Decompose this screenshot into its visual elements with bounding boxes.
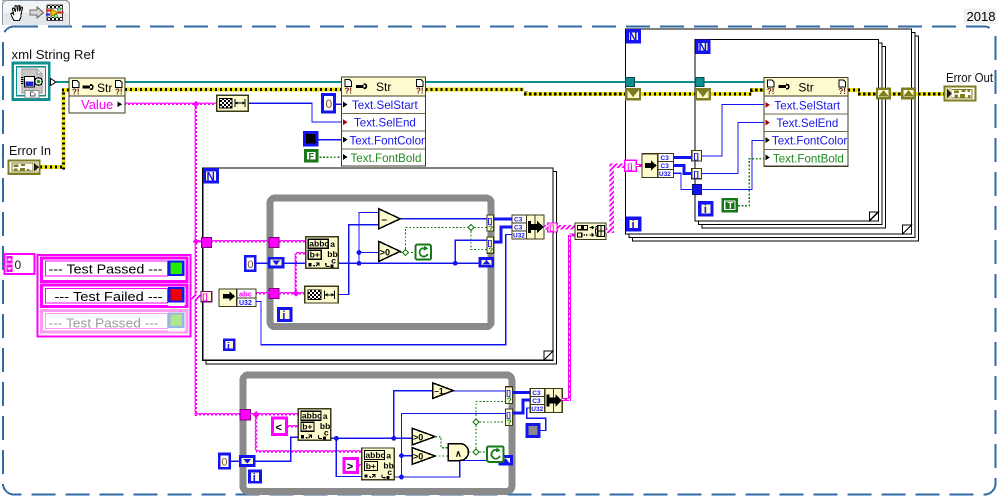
svg-text:Error In: Error In (9, 144, 51, 158)
constant 0 (SelStart) (323, 95, 342, 113)
N label (right inner loop) (697, 41, 709, 54)
i terminal (while loop middle) (278, 309, 291, 323)
wire: cluster to unbundle (dashed) (203, 295, 219, 298)
svg-text:--- Test Passed ---: --- Test Passed --- (49, 262, 163, 276)
greater than zero node 1 (bottom) (412, 428, 435, 445)
svg-text:[]: [] (627, 162, 632, 171)
wire: string down to bottom loop entry (196, 412, 241, 417)
shift register down (bottom loop) (240, 457, 254, 466)
wire: unbundle U32 long route to bundle U32 (256, 235, 512, 345)
svg-text:--- Test Passed ---: --- Test Passed --- (49, 316, 159, 330)
N label (middle loop) (205, 170, 218, 184)
svg-text:Text.FontBold: Text.FontBold (773, 152, 844, 165)
tunnel: error shift in (outer loop) (626, 89, 640, 99)
svg-text:Text.FontBold: Text.FontBold (351, 152, 422, 165)
property node U3: Str with 4 properties (764, 77, 848, 166)
svg-text:0: 0 (326, 97, 333, 111)
tunnel: teal reference on outer loop (626, 78, 635, 87)
svg-text:C3: C3 (661, 155, 670, 162)
svg-text:0: 0 (15, 258, 22, 272)
shift register up (bottom loop) (500, 457, 512, 465)
wire: string branch up to b+ input (294, 254, 299, 294)
VI film icon (46, 5, 64, 22)
wire: unbundle abc string out to junction and string length (256, 291, 306, 296)
svg-text:i: i (227, 340, 230, 352)
wire: teal through loops (redraw over frames) (625, 81, 764, 83)
shift register up (middle while loop) (480, 258, 493, 266)
match pattern node (middle loop) (306, 237, 339, 269)
svg-text:abbc: abbc (309, 239, 329, 249)
tunnel: error shift in (inner loop) (696, 89, 710, 99)
junction: string at (196,241.5) (193, 238, 200, 245)
2018 version label (964, 9, 997, 25)
wire: middle tunnel cluster to build array (557, 225, 575, 230)
junction: string at (296,293.5) (293, 290, 300, 297)
svg-text:>0: >0 (413, 452, 423, 462)
svg-text:C3: C3 (661, 163, 670, 170)
wires: tunnels to property node 3 (702, 105, 764, 157)
AND gate (448, 444, 468, 461)
svg-text:?: ? (507, 418, 512, 427)
tunnel: array in 2 (inner loop) (692, 168, 702, 178)
junction: boolean diamonds (bottom) (473, 449, 479, 455)
svg-text:?!: ?! (838, 87, 846, 96)
tunnel: array auto-index on for loop left edge (201, 291, 212, 301)
conditional tunnel 2 (bottom) (505, 409, 512, 428)
svg-text:[]: [] (694, 170, 700, 179)
string length node (top) (217, 95, 249, 111)
wire: string wire from Value output (125, 102, 216, 107)
conditional tunnel 1 (bottom) (505, 387, 512, 406)
build array node (575, 223, 606, 240)
wire: error wire node2 to right loops (426, 90, 627, 95)
svg-text:?!: ?! (767, 87, 775, 96)
constant 0 (middle loop shift init) (245, 256, 268, 271)
svg-text:i: i (282, 310, 285, 322)
F boolean constant (FontBold) (306, 151, 342, 162)
wire: bundle out to tunnel (544, 225, 548, 230)
svg-text:U32: U32 (513, 233, 525, 240)
svg-text:?!: ?! (345, 87, 353, 96)
svg-text:F: F (309, 152, 315, 162)
N label (right outer loop) (627, 31, 639, 44)
svg-text:>: > (347, 461, 353, 473)
svg-text:?: ? (507, 396, 512, 405)
wire: error in to property node Str1 (40, 90, 69, 170)
svg-text:Text.SelStart: Text.SelStart (774, 99, 841, 112)
match pattern node 1 (bottom loop) (298, 409, 331, 441)
svg-text:Text.FontColor: Text.FontColor (772, 135, 848, 148)
wire: array of clusters out to for-loop tunnel (191, 295, 203, 300)
loop condition terminal (middle) (416, 245, 432, 260)
tunnel: string into bottom loop (240, 410, 250, 420)
svg-text:∧: ∧ (455, 449, 462, 459)
svg-text:T: T (728, 201, 734, 211)
control terminal: xml String Ref (13, 63, 56, 100)
svg-text:2018: 2018 (967, 9, 996, 24)
svg-text:i: i (253, 472, 256, 484)
svg-text:?!: ?! (72, 88, 80, 97)
wire: thick array wires tunnels to bundle (494, 218, 512, 221)
svg-text:N: N (699, 42, 707, 54)
svg-text:>0: >0 (380, 248, 390, 258)
svg-text:U32: U32 (239, 300, 252, 307)
tunnel: array in 1 (inner loop) (692, 151, 702, 161)
tunnel: cluster array auto-index (outer loop left) (625, 160, 636, 171)
svg-text:i: i (704, 204, 707, 216)
greater than zero node (379, 241, 400, 261)
wire: built array up into right outer loop (606, 229, 614, 233)
svg-text:i: i (632, 220, 635, 232)
wire: string length 2 out up to subtract (338, 225, 379, 295)
property node U2: Str with 4 properties (342, 77, 426, 166)
svg-text:Text.SelStart: Text.SelStart (352, 99, 419, 112)
svg-text:--- Test Failed ---: --- Test Failed --- (55, 290, 163, 304)
while loop frame (middle, gray) (270, 198, 491, 327)
svg-text:0: 0 (221, 457, 227, 469)
i terminal (inner loop) (700, 203, 712, 217)
wire: string from trunk into middle for loop (196, 239, 306, 244)
while loop frame (bottom, gray) (243, 375, 512, 491)
cluster element 1: Test Passed (42, 258, 188, 282)
i terminal (bottom loop) (249, 471, 260, 484)
wire: subtract out to conditional tunnel 1 (400, 218, 487, 220)
wire: match node offset-out to shift register with branches (338, 262, 478, 264)
svg-text:U32: U32 (659, 171, 671, 178)
svg-text:[]: [] (694, 152, 700, 161)
indicator terminal: Error Out (945, 87, 976, 101)
svg-text:b+: b+ (310, 250, 320, 260)
subtract node (379, 209, 400, 229)
junction: boolean diamonds (402, 249, 408, 255)
wire: cluster to right unbundle (636, 164, 642, 167)
tunnel: string in (lower) on while loop (269, 288, 279, 298)
wire: booleans into AND (435, 402, 505, 457)
string length node (middle loop) (305, 286, 338, 303)
svg-text:c: c (331, 256, 336, 266)
unbundle node (cluster to abc/U32) (219, 289, 256, 307)
greater than zero node 2 (bottom) (412, 448, 435, 465)
junction: string at (256.3,414.5) (253, 411, 260, 418)
junction: string at (196,104) (193, 101, 200, 108)
minus one node (433, 383, 454, 399)
svg-text:Text.FontColor: Text.FontColor (350, 134, 426, 147)
array of clusters constant frame (38, 255, 191, 337)
svg-text:Error Out: Error Out (946, 71, 993, 85)
wire: string vertical trunk x=196 (194, 104, 199, 416)
tunnel: teal reference on inner loop (695, 78, 704, 87)
svg-text:?!: ?! (115, 88, 123, 97)
svg-text:[]: [] (549, 225, 554, 232)
svg-text:N: N (207, 172, 215, 184)
tunnel: error shift out (outer loop) (902, 89, 915, 99)
i terminal (outer loop) (628, 218, 640, 232)
svg-text:0: 0 (247, 259, 253, 271)
middle for loop frame N (203, 168, 557, 364)
svg-text:Text.SelEnd: Text.SelEnd (354, 117, 416, 130)
tunnel: string in (upper) on while loop (269, 237, 279, 247)
run arrow icon (30, 7, 44, 18)
string constant > (344, 458, 362, 472)
bundle node (middle) (512, 215, 544, 240)
svg-text:N: N (629, 32, 637, 44)
i terminal (middle for loop) (224, 340, 234, 352)
wire: match1 offset out with branches (331, 437, 414, 439)
wire: match2 offset out to tunnel2 / >0 / shift register (394, 414, 505, 478)
wire: offset into match node 1 (bottom) (256, 437, 299, 461)
svg-text:Text.SelEnd: Text.SelEnd (776, 117, 838, 130)
right inner for loop frame (695, 40, 885, 229)
svg-text:Str: Str (376, 80, 391, 94)
wires: unbundle outs to inner loop tunnels (673, 156, 691, 159)
wire: bottom bundle out going up to build array (562, 235, 575, 401)
svg-text:>0: >0 (413, 432, 423, 442)
svg-text:–1: –1 (434, 386, 444, 396)
wire: teal VI reference wire across top (56, 81, 764, 83)
bundle node (bottom) (530, 389, 562, 414)
svg-text:C3: C3 (514, 217, 523, 224)
black color box constant (FontColor) (305, 133, 342, 146)
svg-text:[]: [] (202, 293, 208, 302)
wire: -1 out to conditional tunnel 1 (bottom) (453, 390, 505, 392)
svg-text:xml String Ref: xml String Ref (12, 48, 96, 62)
cluster element 2: Test Failed (42, 285, 188, 307)
svg-text:?: ? (488, 247, 493, 256)
hand tool icon (11, 5, 22, 20)
wire: string into match node 1 (bottom) (250, 412, 299, 417)
svg-text:–: – (382, 215, 388, 226)
svg-text:<: < (276, 422, 282, 434)
shift register down (middle while loop) (269, 258, 283, 267)
cluster element 3: dimmed Test Passed (42, 311, 188, 333)
T boolean constant (722, 159, 764, 213)
right outer for loop frame (625, 29, 918, 241)
unbundle node (right outer loop) (642, 154, 673, 178)
conditional tunnel 1 (middle) (487, 215, 494, 234)
array constant index box (5, 254, 35, 274)
tunnel: scalar in (inner loop, solid blue) (692, 185, 701, 195)
wire: string length out to Text.SelEnd (248, 103, 342, 122)
constant 0 (bottom loop shift init) (219, 454, 239, 469)
match pattern node 2 (bottom loop) (362, 448, 395, 480)
conditional tunnel 2 (middle) (487, 237, 494, 256)
wire: error inside right loops (634, 90, 944, 94)
wire: count branch to conditional tunnel 2 (455, 240, 487, 263)
svg-text:?!: ?! (416, 87, 424, 96)
wire: boolean dotted to loop condition and tunnels (400, 228, 487, 253)
control terminal: Error In (9, 160, 40, 173)
loop condition terminal (bottom) (487, 446, 504, 462)
string constant < (273, 418, 299, 435)
svg-text:abc: abc (239, 290, 252, 299)
svg-text:Value: Value (81, 97, 113, 112)
gray color box constant (527, 408, 546, 437)
wire: offset into match node (284, 262, 306, 264)
tunnel: string (non-indexed look) on for loop left edge (202, 237, 212, 247)
wire: error wire node1 to node2 (125, 88, 342, 92)
toolbar tab (2, 0, 70, 25)
tunnel: cluster out on middle for loop right edge (548, 223, 557, 232)
property node U1: Str / Value (69, 78, 125, 113)
svg-text:Str: Str (97, 81, 112, 95)
wire: string branch down to match node 2 (254, 415, 259, 451)
wire: thick array wires to bottom bundle (513, 391, 531, 394)
svg-text:C3: C3 (514, 225, 523, 232)
svg-text:Str: Str (798, 80, 813, 94)
svg-text:?: ? (488, 225, 493, 234)
tunnel: error shift out (inner loop) (877, 89, 890, 99)
svg-text:a: a (330, 239, 335, 249)
